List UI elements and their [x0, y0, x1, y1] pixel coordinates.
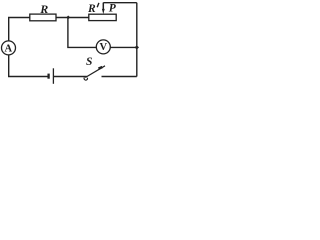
wire right side (top-right corner down to bottom-right corner): [136, 3, 138, 77]
voltmeter V: [96, 40, 110, 54]
node junction J1 (voltmeter tap on top wire): [66, 16, 70, 20]
wire left side lower (ammeter down to bottom-left corner): [9, 55, 48, 77]
svg-text:R: R: [87, 3, 96, 15]
svg-text:P: P: [109, 3, 117, 15]
ammeter A: [2, 41, 16, 55]
wire battery to switch S hinge: [54, 76, 87, 78]
svg-text:S: S: [86, 56, 92, 68]
slider arrow P of rheostat: [102, 3, 105, 15]
switch S (hinge clip, blade, right contact): [84, 66, 105, 80]
wire slider P to top-right corner: [103, 2, 137, 4]
wire voltmeter branch left (from J1 down and right to voltmeter): [68, 18, 96, 47]
svg-text:V: V: [100, 42, 108, 53]
svg-text:R: R: [39, 2, 48, 16]
battery B1: [49, 68, 54, 84]
wire resistor R to rheostat R': [56, 17, 89, 19]
wire top-left segment (corner to resistor R): [9, 18, 30, 42]
wire switch to bottom-right corner: [102, 76, 137, 78]
node junction J2 (voltmeter branch on right wire): [135, 45, 139, 49]
resistor R: [30, 14, 56, 21]
svg-text:A: A: [5, 44, 13, 55]
wire voltmeter branch right (voltmeter to J2): [110, 46, 136, 48]
rheostat R': [89, 14, 116, 20]
